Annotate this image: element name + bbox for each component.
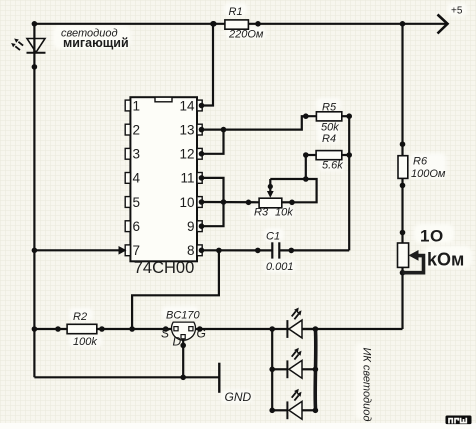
wire pin10 to R3	[202, 201, 259, 204]
svg-text:0.001: 0.001	[266, 261, 294, 273]
node wiper line / R4	[303, 176, 309, 182]
node R1 left	[211, 21, 217, 27]
IC pin numbers right	[179, 98, 195, 258]
svg-text:R6: R6	[413, 156, 428, 168]
node pin12	[199, 151, 205, 157]
svg-text:C1: C1	[266, 231, 280, 243]
wire R3 right	[282, 201, 292, 203]
IC pin numbers left	[133, 98, 141, 258]
node pin9	[199, 223, 205, 229]
node: LED cathode	[32, 64, 38, 70]
svg-text:8: 8	[187, 243, 195, 258]
wire bottom ground line	[34, 376, 219, 378]
svg-text:BC170: BC170	[166, 310, 201, 322]
IR LED bank left rail	[271, 329, 273, 410]
node R2 right	[99, 326, 105, 332]
node pin8	[199, 248, 205, 254]
wire pin8 branch down-left to R2 line	[132, 250, 219, 329]
svg-text:1: 1	[133, 98, 141, 113]
node transistor S	[163, 326, 169, 332]
+5 supply arrow	[438, 15, 448, 34]
node on top rail (pin14 rail)	[210, 21, 216, 27]
node R3 right	[289, 200, 295, 206]
resistor R2	[67, 324, 97, 333]
IC U1 74CH00 body	[130, 97, 197, 261]
node on drain wire	[180, 343, 186, 349]
wire R3 right loop to wiper line	[270, 179, 316, 202]
svg-text:5: 5	[133, 195, 141, 210]
node pins 13/12 tie	[221, 127, 227, 133]
svg-text:R1: R1	[229, 6, 243, 18]
svg-text:74CH00: 74CH00	[134, 259, 195, 277]
IC pads right	[197, 100, 202, 256]
node R5 left	[303, 113, 309, 119]
node C1 left	[255, 248, 261, 254]
potentiometer R3 body	[259, 198, 282, 208]
svg-text:14: 14	[179, 98, 195, 113]
potentiometer RP1 body	[398, 243, 409, 267]
Q1 pad S	[174, 327, 178, 331]
svg-text:5.6k: 5.6k	[322, 160, 343, 172]
wire R2 right to transistor	[97, 328, 172, 330]
wire R4 right	[342, 154, 349, 156]
svg-text:9: 9	[187, 219, 195, 234]
Q1 pad D	[181, 335, 185, 339]
node pins 11/10/9 tie	[221, 199, 227, 205]
scan artifact: white bottom strip	[0, 423, 476, 429]
rail R5/R4 right to C1	[348, 116, 350, 250]
wire: +5 top rail	[34, 23, 447, 25]
node R3 left	[246, 200, 252, 206]
resistor R4	[316, 151, 342, 160]
svg-text:R3: R3	[254, 207, 269, 219]
wire pin13 to R5	[202, 116, 316, 129]
IR LED 3	[269, 389, 318, 419]
ground bar	[218, 363, 220, 393]
node pin14	[199, 103, 205, 109]
svg-text:GND: GND	[225, 390, 252, 404]
watermark nrw	[446, 416, 472, 425]
node R1 right	[255, 21, 261, 27]
wire R4 left down to wiper line	[305, 155, 307, 179]
hand-drawn wiper arrow of RP1	[403, 256, 424, 273]
svg-text:1: 1	[420, 227, 429, 246]
node top rail / R6 rail	[400, 21, 406, 27]
pin7 arrowhead	[119, 246, 127, 255]
resistor R6	[398, 156, 408, 179]
wire R5 right	[342, 115, 349, 117]
svg-text:220Ом: 220Ом	[228, 29, 264, 41]
node C1 right	[289, 248, 295, 254]
IC pads left	[125, 100, 130, 256]
wire C1 right	[279, 249, 349, 251]
svg-text:kОм: kОм	[427, 250, 464, 270]
IR LED bank right rail (hand-drawn)	[313, 329, 317, 410]
node above potentiometer	[400, 230, 406, 236]
node drain / ground line	[180, 375, 186, 381]
svg-text:S: S	[161, 327, 169, 341]
wire left rail	[33, 67, 35, 377]
wire Q1 gate to LED bank and pot	[196, 328, 403, 330]
svg-text:10: 10	[179, 195, 194, 210]
svg-text:ИК светодиод: ИК светодиод	[361, 348, 373, 422]
node pin10	[199, 199, 205, 205]
IC notch	[155, 97, 172, 102]
R3 wiper arrow	[269, 179, 271, 193]
node pin11	[199, 175, 205, 181]
IR LED 1	[269, 308, 318, 338]
wire pin8 to C1	[202, 249, 272, 251]
svg-text:R4: R4	[322, 133, 336, 145]
svg-text:6: 6	[133, 219, 141, 234]
capacitor C1 plates	[271, 242, 273, 258]
resistor R1	[225, 20, 249, 29]
node R4 right	[346, 152, 352, 158]
node transistor G	[197, 326, 203, 332]
wire pin11 tie down	[202, 178, 224, 202]
svg-text:O: O	[430, 227, 443, 246]
Q1 pad G	[189, 327, 193, 331]
svg-text:13: 13	[179, 122, 194, 137]
svg-text:7: 7	[133, 243, 141, 258]
node R2/branch junction	[129, 326, 135, 332]
svg-text:R2: R2	[73, 311, 87, 323]
wire pin12 tie to pin13	[202, 130, 224, 154]
svg-text:11: 11	[180, 171, 194, 186]
svg-text:100Ом: 100Ом	[411, 168, 446, 180]
svg-text:12: 12	[179, 147, 194, 162]
node R6 bottom	[400, 183, 406, 189]
node R5 right	[346, 113, 352, 119]
LED D1 cathode bar	[27, 52, 46, 54]
LED D1 wire through	[33, 39, 35, 53]
IR LED 2	[269, 348, 318, 378]
svg-text:D: D	[173, 335, 182, 349]
svg-text:3: 3	[133, 147, 141, 162]
wire: pin14 rail	[202, 24, 213, 106]
resistor R5	[316, 112, 341, 121]
transistor Q1 body	[172, 322, 196, 340]
node pot bottom	[400, 270, 406, 276]
wire Q1 drain down	[182, 339, 184, 377]
node left rail / pin7	[32, 248, 38, 254]
svg-text:мигающий: мигающий	[63, 36, 129, 50]
node left rail / R2 line	[32, 326, 38, 332]
wire: R6 to pot	[401, 178, 403, 243]
svg-text:10k: 10k	[275, 207, 293, 219]
svg-text:4: 4	[133, 171, 141, 186]
node: top-left corner	[32, 21, 38, 27]
svg-text:+5: +5	[451, 6, 463, 17]
svg-text:50k: 50k	[321, 122, 339, 134]
svg-text:2: 2	[133, 122, 141, 137]
node R6 top	[400, 141, 406, 147]
wire pin9 tie up	[202, 202, 224, 226]
wire R2 line	[34, 328, 67, 330]
LED D1 triangle	[27, 39, 45, 53]
LED D1 emission arrows	[11, 39, 23, 51]
LED D1 blinking: anode wire	[33, 24, 35, 67]
wire: pot bottom	[401, 267, 403, 329]
node R2 left	[55, 326, 61, 332]
wire to pin7	[34, 249, 121, 251]
node pin8 branch	[216, 248, 222, 254]
wire R4 left	[306, 154, 316, 156]
node R4 left	[303, 152, 309, 158]
svg-text:R5: R5	[322, 101, 337, 113]
svg-text:100k: 100k	[73, 336, 97, 348]
wire: R6 rail from top	[401, 24, 403, 156]
node pin13	[199, 127, 205, 133]
